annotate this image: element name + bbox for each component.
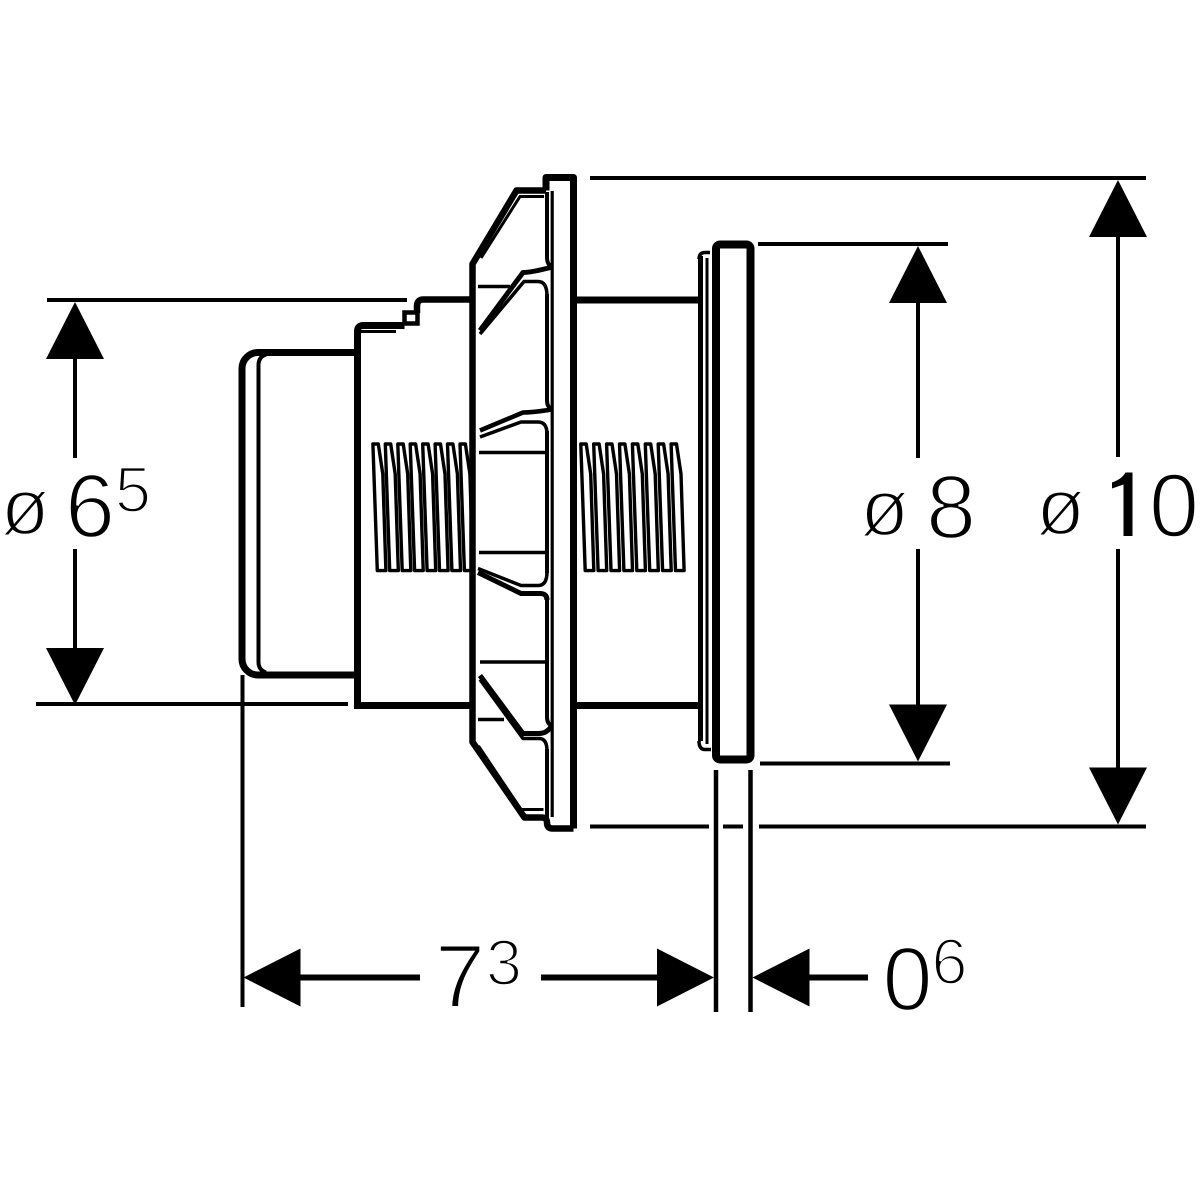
right thread ridge 7 xyxy=(658,444,671,571)
button outline xyxy=(242,353,372,676)
gasket top hook xyxy=(699,253,710,260)
wall plate outline xyxy=(716,245,751,760)
flange fill xyxy=(473,174,578,833)
label ø 6⁵ xyxy=(1,453,152,557)
label 7³ xyxy=(435,926,522,1028)
body fill xyxy=(354,322,476,709)
notch2 lower edge (petal3 top) xyxy=(480,422,547,437)
body bottom edge xyxy=(354,702,475,709)
arrow left 0⁶ xyxy=(753,949,810,1007)
button face inner line xyxy=(259,355,267,673)
notch4 lower edge (petal4 bottom) xyxy=(480,676,552,734)
square tab xyxy=(405,313,418,324)
notch1 lower edge (petal2 top) xyxy=(480,282,547,335)
label 0⁶ xyxy=(882,925,967,1030)
arrow left 7³ xyxy=(244,949,301,1007)
svg-text:8: 8 xyxy=(926,458,976,558)
notch3 lower edge (petal4 top) xyxy=(478,573,547,601)
bottom chamfer inner line xyxy=(479,746,544,810)
svg-text:5: 5 xyxy=(115,453,151,526)
svg-text:0: 0 xyxy=(882,930,932,1030)
body left+top edge xyxy=(358,326,405,706)
extension line bottom (ø 6⁵) xyxy=(36,702,348,706)
arrow up ø 8 xyxy=(889,246,947,303)
flange top cap + spine right edge xyxy=(546,178,574,829)
svg-text:3: 3 xyxy=(486,926,522,999)
right thread ridge 1 xyxy=(581,444,594,571)
svg-text:ø: ø xyxy=(1,462,50,551)
dimension line ø 10 xyxy=(1116,235,1120,770)
notch1 back line xyxy=(478,285,510,289)
extension line right (0⁶) xyxy=(748,770,753,1012)
petal3 horizontal lower xyxy=(479,551,546,555)
glyph 1 (ø 10) xyxy=(1112,473,1133,537)
extension line top (ø 6⁵) xyxy=(47,298,407,302)
petal3 horizontal upper xyxy=(479,451,546,455)
flange outer profile (chamfers + left edge) xyxy=(473,191,574,829)
notch4 back line xyxy=(478,718,504,722)
arrow down ø 10 xyxy=(1089,768,1147,825)
extension line bottom (ø 8) xyxy=(760,762,950,766)
svg-text:6: 6 xyxy=(65,457,115,557)
left thread ridge 2 xyxy=(385,444,398,571)
extension line right (7³ / wall) xyxy=(714,770,719,1012)
left thread ridge 6 xyxy=(435,444,448,571)
dimension line 7³ xyxy=(299,975,659,981)
notch2 upper edge (petal2 bottom) xyxy=(480,410,552,431)
extension line top (ø 10) xyxy=(590,176,1146,180)
dimension line ø 8 xyxy=(916,301,920,706)
gasket inner line xyxy=(706,258,709,744)
label ø 8 xyxy=(860,458,976,558)
notch4 upper edge (petal5 top) xyxy=(480,680,547,752)
arrow up ø 10 xyxy=(1089,180,1147,237)
left thread ridge 7 xyxy=(448,444,461,571)
petal3 inner vertical xyxy=(545,431,549,573)
petal2 inner vertical + hook xyxy=(547,294,553,409)
spine inner-left vertical xyxy=(551,191,554,817)
petal4 inner vertical + hook xyxy=(547,598,553,726)
dimension line ø 6⁵ xyxy=(73,356,77,651)
arrow up ø 6⁵ xyxy=(46,302,104,359)
extension line bottom (ø 10) xyxy=(590,825,1146,829)
petal1 inner vertical + hook xyxy=(547,192,553,267)
tube bottom edge xyxy=(577,702,699,709)
right thread ridge 2 xyxy=(594,444,607,571)
petal5 inner vertical xyxy=(545,749,549,822)
right thread ridge 5 xyxy=(632,444,645,571)
left thread ridge 1 xyxy=(373,444,386,571)
right thread ridge 8 xyxy=(671,444,684,571)
svg-text:7: 7 xyxy=(435,928,485,1028)
arrow down ø 6⁵ xyxy=(46,648,104,705)
collar top edge xyxy=(417,300,474,314)
svg-text:ø: ø xyxy=(860,463,909,552)
tube top edge xyxy=(577,297,699,304)
svg-text:0: 0 xyxy=(1149,457,1199,557)
arrow down ø 8 xyxy=(889,705,947,762)
body top inner line xyxy=(359,330,396,333)
top chamfer inner line xyxy=(481,197,544,259)
svg-text:ø: ø xyxy=(1036,462,1085,551)
left thread ridge 3 xyxy=(398,444,411,571)
arrow right 7³ xyxy=(657,949,714,1007)
left thread ridge 5 xyxy=(423,444,436,571)
extension line top (ø 8) xyxy=(758,242,948,246)
notch1 upper edge (petal1 bottom) xyxy=(480,268,551,331)
notch3 upper edge (petal3 bottom) xyxy=(478,569,547,586)
right thread ridge 3 xyxy=(607,444,620,571)
left thread ridge 8 xyxy=(460,444,473,571)
label ø 10 xyxy=(1036,457,1199,557)
gasket outer line xyxy=(698,256,703,741)
petal4 horizontal xyxy=(480,660,546,664)
left thread ridge 4 xyxy=(410,444,423,571)
right thread ridge 6 xyxy=(645,444,658,571)
gasket bottom hook xyxy=(699,741,711,750)
svg-text:6: 6 xyxy=(931,925,967,998)
right thread ridge 4 xyxy=(620,444,633,571)
extension line left (7³) xyxy=(241,675,245,1007)
dimension line 0⁶ xyxy=(809,975,868,981)
